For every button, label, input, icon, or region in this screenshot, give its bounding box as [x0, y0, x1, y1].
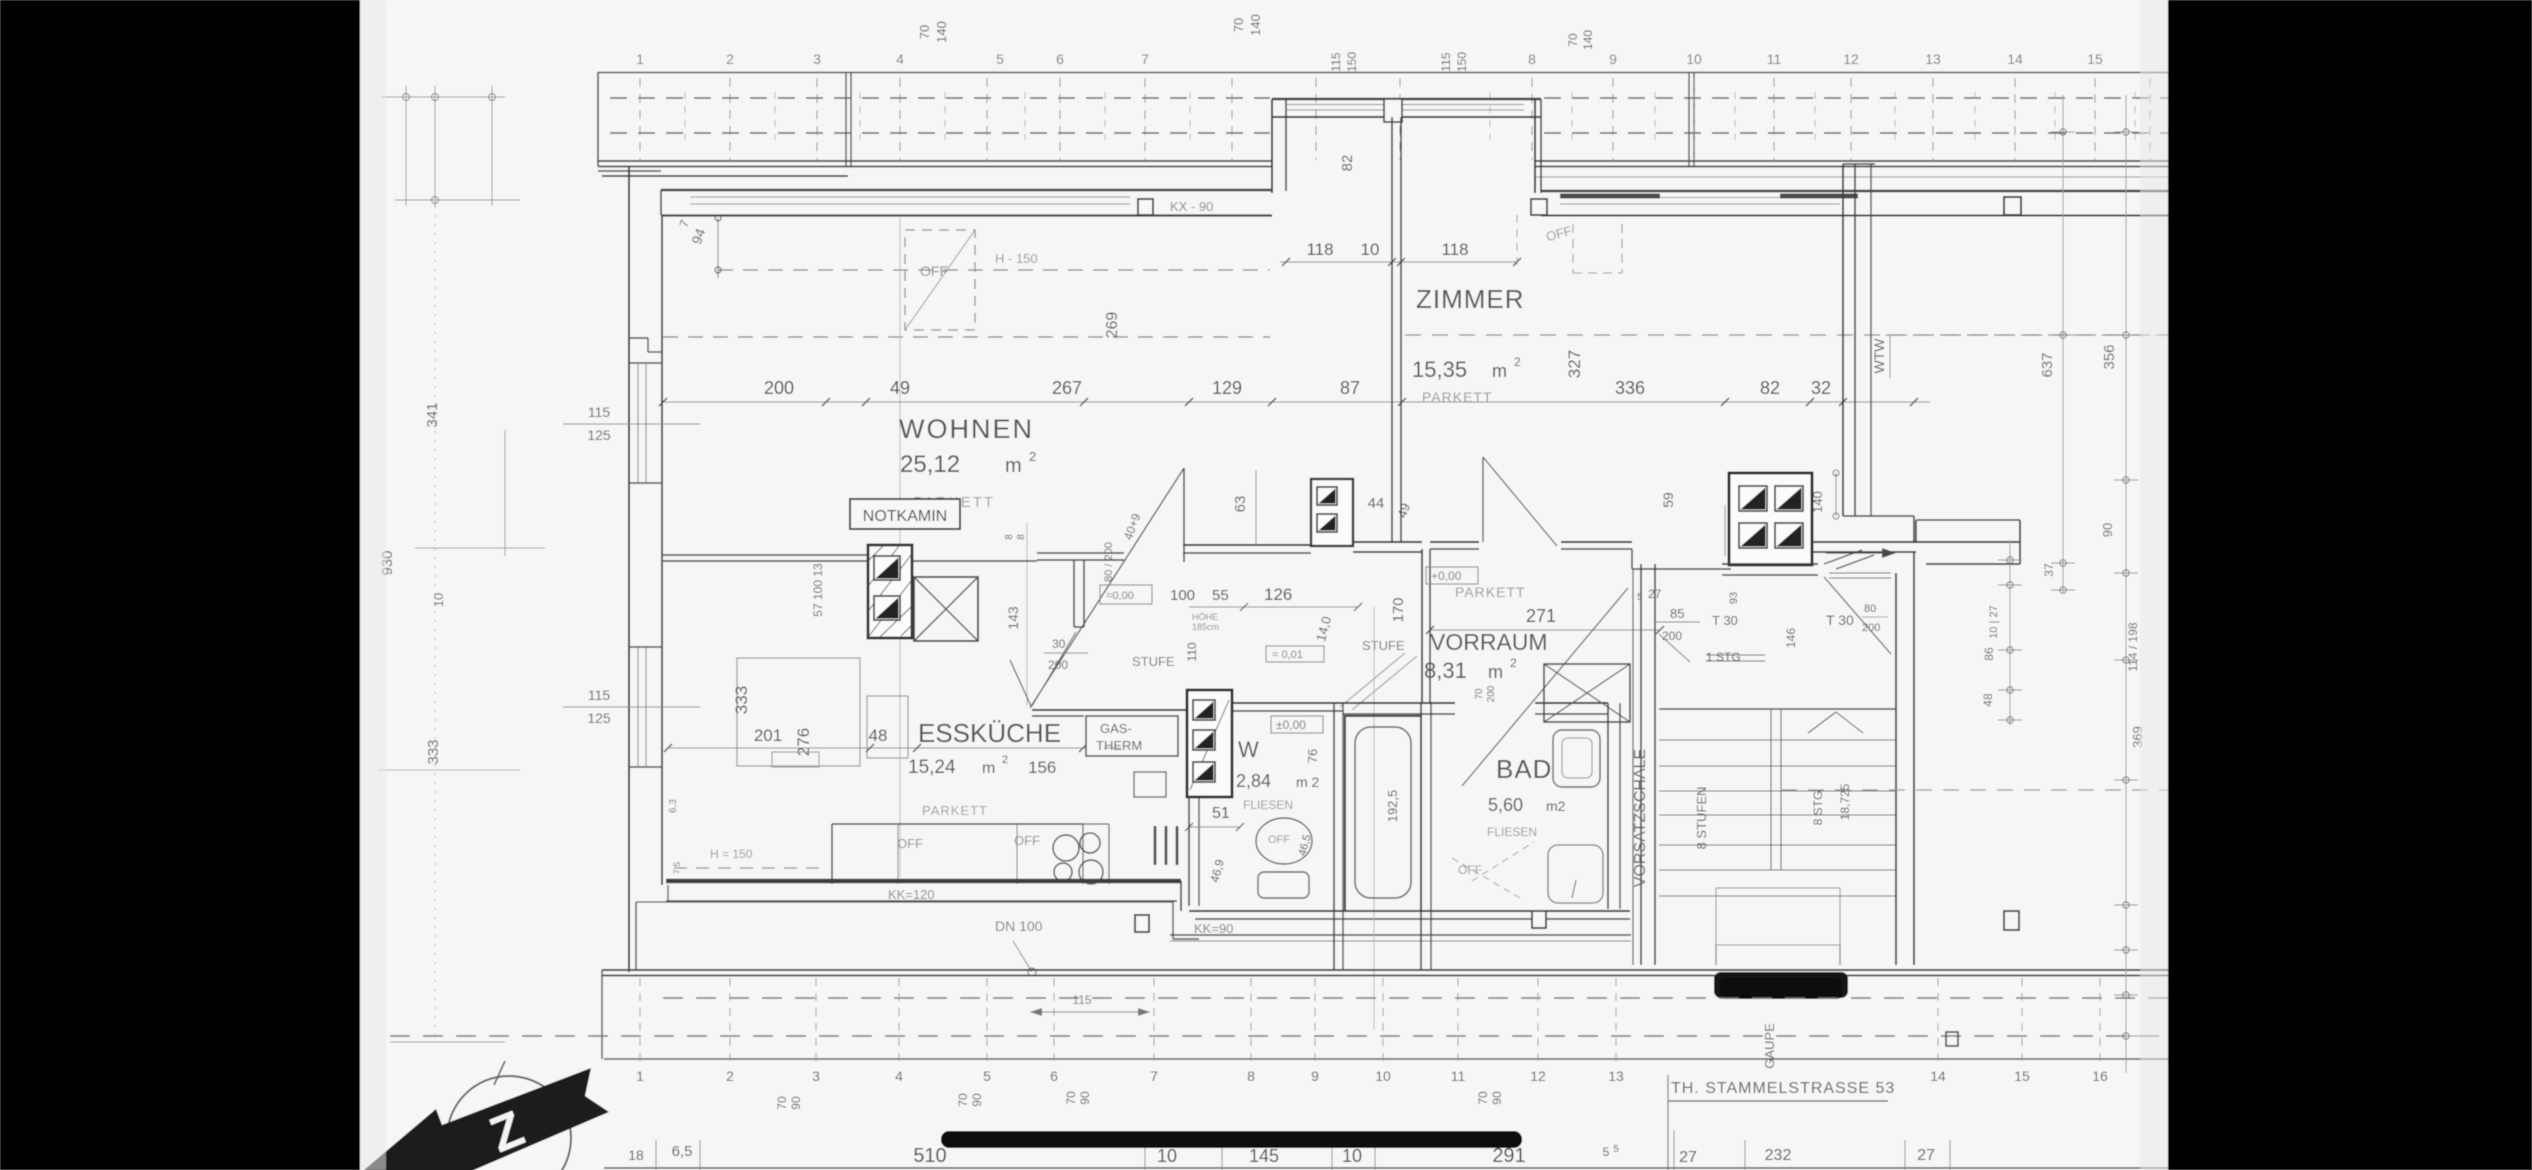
- svg-text:57 100 13: 57 100 13: [811, 563, 825, 617]
- vertical dim at 718: [717, 218, 719, 278]
- svg-text:T 30: T 30: [1712, 613, 1738, 628]
- svg-text:25,12: 25,12: [900, 451, 960, 478]
- svg-text:200: 200: [1048, 658, 1068, 672]
- compass circle: [447, 1076, 571, 1170]
- svg-text:70: 70: [917, 25, 932, 39]
- kitchen sideboard rect: [772, 752, 819, 767]
- band dashed row 2: [390, 1035, 2168, 1037]
- svg-text:7,5: 7,5: [672, 862, 682, 875]
- svg-text:m: m: [1488, 662, 1503, 682]
- svg-text:76: 76: [1305, 749, 1320, 763]
- black bar right: [2168, 0, 2532, 1170]
- top band divider A: [845, 72, 847, 166]
- facade east outer line: [1541, 190, 2168, 192]
- svg-text:11: 11: [1767, 51, 1782, 67]
- svg-text:27: 27: [1917, 1147, 1935, 1164]
- top band vertical ticks minor: [684, 92, 686, 140]
- svg-text:140: 140: [934, 21, 949, 43]
- svg-text:271: 271: [1526, 606, 1556, 626]
- svg-text:FLIESEN: FLIESEN: [1487, 825, 1537, 839]
- chimney wc: [1187, 690, 1232, 797]
- svg-text:150: 150: [1455, 52, 1469, 72]
- svg-text:10: 10: [1375, 1068, 1391, 1084]
- wc dim line 100 55 126: [1189, 606, 1358, 608]
- svg-text:1: 1: [636, 1068, 644, 1084]
- bottom dim line: [604, 1167, 2168, 1169]
- roof window OFF wohnen: [905, 230, 975, 330]
- bad top wall: [1343, 702, 1455, 704]
- svg-text:OFF: OFF: [897, 836, 923, 851]
- chimney small at partition: [1311, 479, 1353, 546]
- svg-text:4: 4: [895, 1068, 903, 1084]
- svg-text:VORSATZSCHALE: VORSATZSCHALE: [1632, 749, 1649, 887]
- svg-text:7: 7: [1141, 51, 1149, 67]
- svg-text:2: 2: [1002, 754, 1008, 766]
- svg-text:3: 3: [812, 1068, 820, 1084]
- stair left wall: [1640, 564, 1642, 965]
- svg-text:18: 18: [628, 1147, 644, 1163]
- building bottom wall: [602, 969, 2168, 971]
- facade east inner line: [1541, 215, 2168, 217]
- loggia bottom corner: [1843, 515, 1914, 517]
- svg-text:2: 2: [726, 1068, 734, 1084]
- svg-text:14: 14: [2007, 51, 2023, 67]
- svg-text:341: 341: [424, 402, 441, 427]
- svg-text:49: 49: [890, 378, 910, 398]
- gas-therm box: [1086, 716, 1178, 756]
- svg-text:TH. STAMMELSTRASSE 53: TH. STAMMELSTRASSE 53: [1671, 1080, 1895, 1097]
- svg-text:11: 11: [1451, 1068, 1466, 1084]
- top band bottom double line: [598, 160, 1272, 162]
- counter right extension: [1108, 824, 1110, 884]
- dormer right wall: [1534, 99, 1536, 193]
- svg-text:= 0,01: = 0,01: [1272, 649, 1303, 661]
- stair right wall: [1895, 573, 1897, 965]
- west wall inner: [661, 215, 663, 885]
- svg-text:W: W: [1238, 737, 1259, 762]
- svg-text:140: 140: [1248, 14, 1263, 36]
- svg-text:80 / 200: 80 / 200: [1103, 542, 1115, 582]
- top grid baseline: [598, 72, 2168, 74]
- terrace line below kitchen: [636, 901, 1173, 903]
- grid extension line tub: [1373, 607, 1375, 1030]
- dim 115 with arrows: [1030, 1011, 1150, 1013]
- esskueche dim line: [668, 747, 1152, 749]
- zimmer east wall: [1842, 164, 1844, 516]
- svg-text:70: 70: [956, 1093, 970, 1107]
- svg-text:8: 8: [1016, 534, 1027, 540]
- svg-text:118: 118: [1441, 240, 1468, 259]
- svg-text:27: 27: [1648, 587, 1662, 601]
- mid wall segment west: [663, 554, 868, 556]
- svg-text:STUFE: STUFE: [1132, 654, 1175, 669]
- facade wohnen window lines: [690, 196, 1130, 198]
- svg-text:FLIESEN: FLIESEN: [1243, 798, 1293, 812]
- small square top right: [2004, 197, 2021, 215]
- stair treads: [1659, 708, 1895, 710]
- svg-text:32: 32: [1811, 378, 1831, 398]
- bad east wall: [1607, 703, 1609, 909]
- svg-text:5,60: 5,60: [1488, 795, 1523, 815]
- top band lower extra line left: [602, 175, 848, 177]
- svg-text:6,5: 6,5: [672, 1143, 693, 1160]
- svg-text:14: 14: [1930, 1068, 1946, 1084]
- svg-text:93: 93: [1728, 592, 1740, 604]
- svg-text:267: 267: [1052, 378, 1082, 398]
- svg-text:232: 232: [1765, 1147, 1792, 1164]
- svg-text:5: 5: [1613, 1144, 1619, 1155]
- right margin dashed low: [1781, 789, 2168, 791]
- stair cut mark: [1808, 712, 1836, 733]
- shaft x-box: [1544, 664, 1630, 722]
- chimney big stairwell: [1729, 473, 1812, 565]
- svg-text:12: 12: [1843, 51, 1859, 67]
- svg-text:200: 200: [1662, 629, 1682, 643]
- label box NOTKAMIN: [850, 499, 960, 529]
- kitchen counter: [832, 823, 1083, 825]
- wc top wall: [1232, 702, 1343, 704]
- svg-text:DN 100: DN 100: [995, 918, 1043, 934]
- svg-text:1: 1: [636, 51, 644, 67]
- facade wohnen outer line: [661, 189, 1272, 191]
- svg-text:8,31: 8,31: [1424, 658, 1467, 683]
- small square dn100: [1135, 915, 1149, 932]
- svg-text:87: 87: [1340, 378, 1360, 398]
- compass north tick: [494, 1061, 505, 1085]
- svg-text:143: 143: [1005, 606, 1021, 630]
- bad basin: [1553, 730, 1600, 787]
- band dashed row 1: [663, 997, 2168, 999]
- svg-text:15: 15: [2014, 1068, 2030, 1084]
- left margin dotted vertical: [434, 206, 436, 1040]
- facade east window dark segments: [1560, 194, 1660, 199]
- zimmer partition wall: [1391, 117, 1393, 542]
- svg-text:129: 129: [1212, 378, 1242, 398]
- svg-text:4: 4: [896, 51, 904, 67]
- mid wall behind x-box: [912, 560, 1037, 562]
- svg-text:m2: m2: [1546, 798, 1566, 814]
- right corner wall piece: [1916, 519, 2020, 521]
- kitchen south wall: [666, 879, 1181, 884]
- svg-text:3: 3: [813, 51, 821, 67]
- top band lower thin line right: [1536, 176, 2168, 178]
- svg-text:200: 200: [1862, 622, 1880, 634]
- dashed line row lower: [663, 336, 1270, 338]
- svg-text:7: 7: [1150, 1068, 1158, 1084]
- zimmer door swing: [1482, 457, 1484, 542]
- redaction bar small: [1714, 972, 1848, 998]
- vorraum left wall: [1421, 549, 1423, 703]
- mid wall T stub: [1037, 552, 1124, 554]
- entry door threshold: [1829, 572, 1891, 574]
- svg-text:13: 13: [1925, 51, 1941, 67]
- entry wall east of chimney: [1812, 541, 2020, 543]
- svg-text:200: 200: [1486, 685, 1497, 702]
- svg-text:170: 170: [1390, 597, 1407, 622]
- svg-text:8 STUFEN: 8 STUFEN: [1694, 787, 1709, 850]
- bath-bad wall: [1420, 703, 1422, 970]
- svg-text:90: 90: [2100, 523, 2115, 537]
- facade wohnen inner line KX-90: [661, 214, 1272, 216]
- wohnen furniture rects: [737, 658, 860, 766]
- svg-text:8 STG: 8 STG: [1811, 791, 1825, 826]
- bad door swing: [1462, 588, 1628, 786]
- level box =0,00 near stufe: [1100, 585, 1152, 604]
- svg-text:10: 10: [1157, 1146, 1177, 1166]
- black bar left: [0, 0, 360, 1170]
- svg-text:44: 44: [1368, 495, 1385, 512]
- wall jog to big chimney: [1631, 549, 1633, 569]
- svg-text:ZIMMER: ZIMMER: [1416, 284, 1525, 314]
- svg-text:118: 118: [1306, 240, 1333, 259]
- svg-text:192,5: 192,5: [1385, 790, 1400, 823]
- svg-text:2: 2: [726, 51, 734, 67]
- level box 0,01: [1266, 646, 1324, 662]
- vent arrows: [1826, 552, 1893, 554]
- svg-text:356: 356: [2101, 344, 2118, 369]
- dormer pier left: [1384, 99, 1402, 122]
- svg-text:18,725: 18,725: [1838, 783, 1852, 820]
- svg-text:12: 12: [1530, 1068, 1546, 1084]
- kitchen step diagonal: [1010, 660, 1031, 706]
- left margin bottom tick line: [390, 1041, 505, 1043]
- svg-text:269: 269: [1104, 312, 1121, 339]
- kitchen dashed counter line: [674, 867, 828, 869]
- dormer top wall with window: [1272, 98, 1541, 100]
- svg-text:5: 5: [1603, 1145, 1610, 1159]
- svg-text:327: 327: [1565, 350, 1584, 378]
- svg-text:H = 150: H = 150: [710, 847, 753, 861]
- svg-text:8: 8: [1528, 51, 1536, 67]
- dashed line H-150: [718, 269, 1270, 271]
- svg-text:T 30: T 30: [1826, 612, 1854, 628]
- svg-text:85: 85: [1670, 606, 1684, 621]
- zimmer dashed extension: [1516, 215, 1518, 268]
- left margin horizontal lines: [381, 96, 505, 98]
- svg-text:70: 70: [1474, 688, 1485, 700]
- svg-text:145: 145: [1249, 1146, 1279, 1166]
- bathtub: [1345, 716, 1421, 911]
- facade pillar 2: [1531, 199, 1547, 215]
- wc toilet: [1256, 818, 1312, 864]
- svg-text:200: 200: [764, 378, 794, 398]
- svg-text:2: 2: [1510, 656, 1517, 670]
- svg-text:37: 37: [2042, 563, 2056, 577]
- svg-text:GAUPE: GAUPE: [1762, 1023, 1777, 1069]
- svg-text:114 / 198: 114 / 198: [2126, 622, 2140, 671]
- west wall window 1: [637, 363, 639, 483]
- south step wall below wc: [1170, 934, 1631, 936]
- svg-text:PARKETT: PARKETT: [1422, 389, 1493, 405]
- svg-text:9: 9: [1609, 51, 1617, 67]
- top band dashed row 2: [610, 132, 1270, 134]
- svg-text:115: 115: [1439, 52, 1453, 71]
- svg-text:10: 10: [1361, 240, 1380, 259]
- svg-text:WTW: WTW: [1871, 338, 1887, 374]
- svg-text:16: 16: [2092, 1068, 2108, 1084]
- svg-text:70: 70: [1476, 1091, 1490, 1105]
- svg-text:201: 201: [754, 726, 782, 745]
- svg-text:m 2: m 2: [1296, 774, 1320, 790]
- svg-text:WOHNEN: WOHNEN: [899, 414, 1034, 444]
- svg-text:115: 115: [1329, 52, 1343, 71]
- svg-text:KX - 90: KX - 90: [1170, 199, 1213, 214]
- stair top wall: [1722, 563, 1818, 565]
- wc-bath wall: [1333, 703, 1335, 970]
- redaction bar long: [941, 1131, 1522, 1148]
- svg-text:13: 13: [1608, 1068, 1624, 1084]
- x-box next to chimney: [914, 577, 978, 641]
- svg-text:PARKETT: PARKETT: [1455, 584, 1526, 600]
- svg-text:9: 9: [1311, 1068, 1319, 1084]
- facade east window lines: [1560, 197, 1840, 199]
- svg-text:10: 10: [1342, 1146, 1362, 1166]
- svg-text:90: 90: [1078, 1091, 1092, 1105]
- svg-text:333: 333: [425, 739, 442, 764]
- svg-text:8: 8: [1247, 1068, 1255, 1084]
- svg-text:55: 55: [1212, 587, 1229, 604]
- svg-text:86: 86: [1982, 647, 1996, 661]
- svg-text:10 | 27: 10 | 27: [1988, 605, 2000, 638]
- svg-text:2,84: 2,84: [1236, 771, 1271, 791]
- dim 103 flag: [1104, 747, 1121, 749]
- entry door swing T30: [1824, 577, 1891, 654]
- svg-text:115: 115: [1072, 993, 1091, 1007]
- svg-text:100: 100: [1170, 587, 1195, 604]
- svg-text:90: 90: [789, 1096, 803, 1110]
- vorraum top wall west: [1353, 541, 1422, 543]
- svg-text:70: 70: [1231, 18, 1246, 32]
- svg-text:5: 5: [996, 51, 1004, 67]
- svg-text:m: m: [1005, 455, 1022, 477]
- svg-text:156: 156: [1028, 758, 1056, 777]
- right margin vertical 2: [2125, 95, 2127, 1073]
- svg-text:70: 70: [775, 1096, 789, 1110]
- wohnen dim line: [663, 401, 1930, 403]
- small square low right: [1946, 1032, 1958, 1046]
- svg-text:48: 48: [1981, 693, 1995, 707]
- left margin vertical ticks top: [405, 86, 407, 206]
- band left edge: [601, 970, 603, 1059]
- top band divider B: [1688, 72, 1690, 166]
- svg-text:510: 510: [913, 1145, 946, 1167]
- svg-text:48: 48: [869, 726, 888, 745]
- right margin dashed mid: [1886, 334, 2168, 336]
- svg-text:15,24: 15,24: [908, 757, 956, 778]
- svg-text:110: 110: [1185, 642, 1199, 661]
- svg-text:125: 125: [587, 427, 611, 443]
- svg-text:146: 146: [1784, 628, 1798, 648]
- right margin cross ticks: [2051, 131, 2075, 133]
- zimmer roof window OFF: [1572, 224, 1574, 273]
- svg-text:10: 10: [1686, 51, 1702, 67]
- svg-text:59: 59: [1660, 492, 1676, 508]
- svg-text:15: 15: [2087, 51, 2103, 67]
- loggia outer line: [1870, 164, 1872, 516]
- dormer left wall: [1271, 99, 1273, 193]
- svg-text:VORRAUM: VORRAUM: [1430, 629, 1548, 655]
- svg-text:150: 150: [1345, 52, 1359, 72]
- top band dashed row 1: [610, 97, 1270, 99]
- svg-text:10: 10: [431, 593, 446, 607]
- wohnen door jamb and swing: [1183, 468, 1185, 562]
- svg-text:27: 27: [1679, 1149, 1697, 1166]
- svg-text:90: 90: [1490, 1091, 1504, 1105]
- svg-text:2: 2: [1029, 449, 1036, 464]
- svg-text:OFF: OFF: [1268, 834, 1290, 846]
- svg-text:333: 333: [732, 686, 751, 714]
- svg-text:NOTKAMIN: NOTKAMIN: [863, 508, 947, 525]
- svg-text:90: 90: [970, 1093, 984, 1107]
- svg-text:125: 125: [587, 710, 611, 726]
- svg-text:82: 82: [1339, 155, 1356, 172]
- svg-text:+0,00: +0,00: [1431, 569, 1462, 583]
- left margin cross mid: [415, 547, 545, 549]
- stair stringer: [1770, 709, 1772, 870]
- svg-text:115: 115: [588, 687, 611, 703]
- svg-text:291: 291: [1492, 1145, 1525, 1167]
- svg-text:80: 80: [1864, 603, 1876, 615]
- compass needle black arrow: [364, 1068, 609, 1170]
- svg-text:STUFE: STUFE: [1362, 638, 1405, 653]
- svg-text:15,35: 15,35: [1412, 357, 1467, 382]
- zimmer dashed mid row: [1405, 334, 2168, 336]
- west wall window 2: [637, 647, 639, 767]
- svg-text:637: 637: [2039, 352, 2056, 377]
- svg-text:70: 70: [1064, 1091, 1078, 1105]
- top band left edge: [597, 72, 599, 166]
- svg-text:m: m: [1492, 361, 1507, 381]
- right margin dim line mid: [2009, 540, 2011, 725]
- top band vertical dashed ticks: [639, 78, 641, 160]
- svg-text:6: 6: [1050, 1068, 1058, 1084]
- zimmer dim line 118 10 118: [1280, 261, 1517, 263]
- facade left corner step: [598, 170, 661, 172]
- bad toilet: [1548, 845, 1603, 903]
- svg-text:HÖHE: HÖHE: [1192, 612, 1218, 622]
- svg-text:5: 5: [1637, 592, 1643, 603]
- svg-text:336: 336: [1615, 378, 1645, 398]
- gas-therm top wall: [1032, 709, 1187, 711]
- wc left wall: [1188, 797, 1190, 906]
- grid extension line 4: [899, 218, 901, 877]
- drain square wc: [1532, 911, 1546, 928]
- svg-text:70: 70: [1566, 33, 1580, 47]
- svg-text:ESSKÜCHE: ESSKÜCHE: [918, 718, 1061, 748]
- west wall outer: [628, 363, 630, 972]
- svg-text:115: 115: [588, 404, 611, 420]
- svg-text:OFF: OFF: [1458, 863, 1482, 877]
- svg-text:PARKETT: PARKETT: [922, 803, 988, 818]
- scan shading near bars: [360, 0, 386, 1170]
- svg-text:=0,00: =0,00: [1106, 590, 1134, 602]
- svg-text:140: 140: [1810, 491, 1825, 513]
- facade pillar 1: [1138, 199, 1153, 215]
- svg-text:185cm: 185cm: [1192, 622, 1219, 632]
- band bottom line: [604, 1058, 2168, 1060]
- wc bottom wall: [1189, 910, 1630, 912]
- radiator bars: [1154, 826, 1157, 865]
- svg-text:THERM: THERM: [1096, 738, 1142, 753]
- svg-text:126: 126: [1264, 585, 1292, 604]
- svg-text:51: 51: [1212, 805, 1230, 822]
- vorsatzschale wall lines: [1632, 569, 1634, 965]
- svg-text:6,3: 6,3: [668, 799, 679, 813]
- svg-text:GAS-: GAS-: [1100, 721, 1132, 736]
- svg-text:OFF: OFF: [1014, 833, 1040, 848]
- right margin vertical 1: [2062, 95, 2064, 592]
- bottom tick verticals: [655, 1140, 657, 1170]
